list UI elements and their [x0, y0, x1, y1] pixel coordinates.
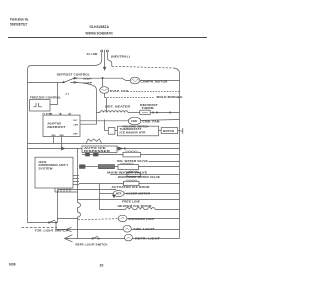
svg-text:5995387527: 5995387527 [10, 23, 28, 27]
svg-text:CMP: CMP [84, 83, 94, 85]
dispenser box right comb [73, 175, 79, 177]
wire cnd fan to rail [141, 119, 180, 122]
adc bottom stub NEU [61, 137, 63, 149]
wire compressor to rail [140, 80, 180, 82]
freezer control switch [33, 103, 42, 107]
neutral corner to right rail [173, 68, 180, 74]
node on line B [124, 148, 125, 149]
adc bottom stub DEF [53, 137, 55, 144]
valve rung 2 wires [80, 165, 86, 169]
svg-text:4 7: 4 7 [66, 93, 70, 96]
svg-text:ICE MAKER HTR: ICE MAKER HTR [120, 132, 146, 135]
neutral wire curve [107, 58, 111, 67]
dispenser assembly box [35, 157, 73, 188]
service cord prong N circle [106, 50, 108, 52]
defrost heater element [97, 111, 129, 113]
header publication text [10, 17, 29, 26]
vertical to lights [99, 184, 101, 210]
dashed evap fan neutral wire [128, 91, 180, 93]
hot wire to left rail [28, 58, 102, 70]
main valve solid coil [98, 165, 114, 169]
svg-text:HEATER ICE DOOR: HEATER ICE DOOR [118, 204, 152, 208]
svg-text:COMPR. MOTOR: COMPR. MOTOR [141, 79, 168, 83]
svg-text:DEF: DEF [52, 135, 57, 137]
fzr light switch wire [28, 222, 58, 224]
heater ice door rung [100, 209, 126, 211]
svg-text:CMP: CMP [73, 124, 78, 126]
free line rung [78, 199, 180, 201]
actuator rung wire [58, 189, 117, 191]
svg-text:Publication No.: Publication No. [10, 17, 29, 21]
wire top contact to compressor [77, 78, 130, 80]
icemaker heater box [108, 128, 115, 135]
wire down to evap fan [102, 78, 104, 87]
refr switch dots [92, 238, 93, 239]
vertical into heater row [106, 98, 108, 113]
wire thermostat to rail [150, 112, 179, 114]
svg-text:FREE LINE: FREE LINE [122, 199, 140, 203]
adaptive defrost control box [43, 115, 80, 136]
left drop vertical [57, 190, 59, 223]
svg-text:FREEZER CONTROL: FREEZER CONTROL [30, 96, 61, 100]
svg-text:(NEUTRAL): (NEUTRAL) [111, 54, 130, 58]
connector box on line B [82, 146, 117, 153]
adc top stubs [50, 113, 52, 115]
svg-text:FZR. LIGHT: FZR. LIGHT [134, 227, 155, 231]
icemaker motor box [161, 128, 178, 134]
main valve return wire [110, 174, 180, 176]
rail stub tick [182, 128, 184, 134]
svg-text:AC LINE: AC LINE [87, 52, 98, 56]
defrost pivot dot [63, 81, 65, 83]
dispenser light wire [58, 218, 79, 220]
defrost thermostat box [140, 110, 150, 114]
svg-text:SYSTEM: SYSTEM [39, 166, 53, 170]
svg-text:DISPENSER LIGHT: DISPENSER LIGHT [129, 217, 155, 221]
service cord prong L circle [101, 50, 103, 52]
resistor zigzag on line A [86, 139, 102, 144]
svg-text:MOTOR: MOTOR [163, 130, 174, 133]
service cord prong lines [101, 52, 103, 57]
icemaker thermostat box [117, 126, 158, 136]
freezer light bulb [123, 225, 131, 232]
wire bottom contact to heater [77, 83, 97, 92]
adc right stub CMP [80, 113, 97, 125]
svg-text:DEF: DEF [73, 134, 78, 136]
svg-text:CND: CND [131, 119, 137, 123]
node hot junction [102, 77, 103, 78]
dispenser water valve coil [124, 181, 140, 185]
freezer control box [30, 100, 51, 111]
mold module dashed line [105, 97, 154, 99]
svg-text:DISPENSER WATER VALVE: DISPENSER WATER VALVE [118, 175, 160, 179]
cnd fan feed wire [80, 120, 128, 122]
svg-text:DEF.: DEF. [84, 78, 94, 80]
evap fan motor ellipse [100, 87, 109, 94]
valve rung 3 wire [79, 183, 124, 185]
node heater rail dot [152, 112, 153, 113]
junction arrow on line B [62, 147, 65, 150]
mold module wire left [105, 130, 109, 132]
chevron connector fzr [66, 227, 72, 231]
iso valve return wire [149, 161, 180, 163]
right rail [179, 74, 181, 239]
svg-text:20: 20 [100, 263, 104, 267]
refr light bulb [124, 234, 132, 241]
svg-text:DISPENSER: DISPENSER [84, 151, 110, 153]
svg-text:DEFROST: DEFROST [47, 125, 65, 129]
line A horizontal [28, 143, 180, 145]
svg-text:AUTO ICE: AUTO ICE [84, 147, 107, 150]
svg-text:MTR: MTR [116, 192, 122, 195]
svg-text:AUGER MOTOR: AUGER MOTOR [126, 192, 150, 196]
door cord vertical with loops [78, 149, 81, 239]
svg-text:GLHS268ZA: GLHS268ZA [90, 25, 110, 29]
svg-text:DEFROST CONTROL: DEFROST CONTROL [57, 73, 90, 77]
svg-text:1N: 1N [59, 114, 62, 116]
svg-text:REFR. LIGHT SWITCH: REFR. LIGHT SWITCH [76, 242, 108, 246]
svg-text:THERM.: THERM. [142, 106, 155, 110]
line B horizontal [28, 148, 112, 150]
cnd fan motor ellipse [128, 117, 141, 125]
iso water valve coil [123, 152, 141, 157]
svg-text:REFR. LIGHT: REFR. LIGHT [135, 237, 160, 241]
freezer control output wire [50, 83, 58, 105]
defrost control blade [64, 78, 74, 82]
svg-text:EVAP. FAN: EVAP. FAN [110, 89, 128, 93]
arrow on line B [118, 147, 122, 150]
svg-text:NEU: NEU [60, 135, 65, 137]
valve rung 1 wire [82, 154, 123, 156]
neutral dashed run [112, 66, 173, 68]
left rail [27, 70, 29, 223]
ground arrow [103, 67, 105, 70]
refr light wire [65, 238, 126, 240]
dispenser light bulb [118, 215, 127, 221]
svg-text:FZR. LIGHT SWITCH: FZR. LIGHT SWITCH [35, 229, 68, 233]
compressor motor ellipse [130, 77, 140, 84]
svg-text:6/99: 6/99 [9, 263, 16, 267]
svg-text:CND. FAN: CND. FAN [143, 119, 160, 123]
svg-text:WIRING SCHEMATIC: WIRING SCHEMATIC [86, 31, 114, 35]
icemaker water valve coil [127, 171, 141, 177]
wires between icemaker boxes [115, 130, 118, 132]
svg-text:RLY: RLY [73, 120, 78, 122]
svg-text:MAIN WATER VALVE: MAIN WATER VALVE [107, 170, 147, 174]
svg-text:DEF. HEATER: DEF. HEATER [105, 105, 130, 109]
svg-text:MOLD MODULE: MOLD MODULE [157, 95, 183, 99]
svg-text:ISO. WATER VALVE: ISO. WATER VALVE [117, 159, 148, 163]
defrost contact arrows [74, 77, 77, 79]
main water valve coil [118, 165, 139, 170]
defrost control feed wire [28, 82, 64, 84]
wire evap fan to mold line [104, 93, 106, 97]
chevron connector refr [65, 235, 73, 242]
dispenser box bottom comb [54, 188, 56, 192]
cabinet dashed boundary [22, 227, 58, 229]
wire heater to thermostat [128, 112, 140, 114]
auger motor circle [113, 191, 124, 197]
fzr light wire [56, 223, 124, 230]
svg-text:ACTUATOR ICE DOOR: ACTUATOR ICE DOOR [112, 185, 150, 189]
header rule [8, 36, 207, 38]
